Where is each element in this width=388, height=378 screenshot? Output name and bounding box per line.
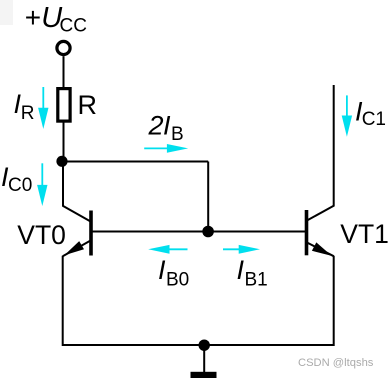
label IC1 <box>355 97 386 130</box>
wire node A to bend (horizontal) <box>63 161 208 163</box>
label 2IB <box>148 111 184 145</box>
svg-text:C1: C1 <box>362 109 386 130</box>
label IC0 <box>1 162 32 196</box>
svg-text:R: R <box>78 90 98 120</box>
svg-text:VT0: VT0 <box>17 220 66 250</box>
transistor VT0 <box>63 206 92 256</box>
current arrow 2IB <box>144 144 188 153</box>
svg-text:B0: B0 <box>166 269 189 290</box>
label +UCC <box>25 2 87 37</box>
ground stub wire <box>203 345 205 372</box>
svg-text:+: + <box>25 2 41 33</box>
power terminal +UCC <box>57 41 70 54</box>
VT1 emitter diagonal <box>306 242 334 256</box>
node B junction dot <box>202 226 214 238</box>
svg-text:I: I <box>237 255 245 285</box>
svg-text:B: B <box>171 124 184 145</box>
svg-text:R: R <box>21 103 35 124</box>
current arrow IC0 <box>37 163 47 206</box>
wire terminal to resistor <box>63 56 65 87</box>
svg-text:B1: B1 <box>245 269 268 290</box>
transistor VT1 <box>306 206 334 256</box>
current arrow IB0 <box>148 245 187 254</box>
VT0 emitter diagonal <box>63 240 92 256</box>
current arrow IB1 <box>223 245 260 254</box>
ground <box>191 372 217 378</box>
base wire VT0 to VT1 <box>92 231 305 233</box>
wire VT1 collector up <box>333 85 335 207</box>
svg-text:I: I <box>163 111 171 141</box>
node C junction dot <box>199 340 210 351</box>
svg-text:VT1: VT1 <box>340 219 388 249</box>
svg-text:C0: C0 <box>8 175 32 196</box>
svg-text:CC: CC <box>60 16 87 37</box>
label IR <box>14 89 35 124</box>
VT0 collector diagonal <box>63 206 92 222</box>
current arrow IR <box>38 87 48 129</box>
resistor R <box>58 89 70 122</box>
wire resistor to node A <box>63 123 65 162</box>
wire VT0 emitter down <box>62 256 64 346</box>
wire node A down to VT0 collector <box>62 161 64 207</box>
svg-text:I: I <box>158 255 166 285</box>
label IB0 <box>158 255 189 290</box>
wire bend down to node B <box>207 162 209 232</box>
node A junction dot <box>56 156 67 167</box>
VT1 emitter arrow <box>312 242 332 256</box>
VT1 collector diagonal <box>306 206 334 221</box>
svg-text:CSDN @ltqshs: CSDN @ltqshs <box>298 357 374 369</box>
label IB1 <box>237 255 268 290</box>
VT0 emitter arrow <box>64 241 84 255</box>
wire VT1 emitter down <box>333 256 335 346</box>
bottom wire <box>63 344 334 346</box>
VT1 base bar <box>305 210 309 255</box>
faint scan artifact top-left <box>0 0 13 25</box>
svg-text:2: 2 <box>148 111 164 141</box>
current arrow IC1 <box>342 95 352 136</box>
VT0 base bar <box>89 211 93 256</box>
